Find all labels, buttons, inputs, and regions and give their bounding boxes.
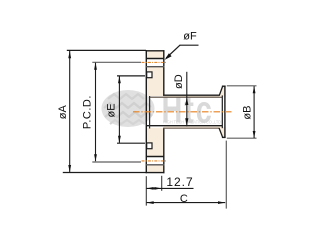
KF inner joint line <box>221 95 223 128</box>
svg-text:øD: øD <box>173 74 185 89</box>
svg-text:HIGH TECH CREATION CO.,LTD: HIGH TECH CREATION CO.,LTD <box>163 120 222 125</box>
watermark globe logo <box>102 90 155 127</box>
svg-text:C: C <box>180 193 188 205</box>
dimension D line <box>185 72 188 127</box>
bolt hole top (section) <box>146 59 164 67</box>
KF flange upper half <box>219 86 226 97</box>
dimension PCD line <box>94 63 97 162</box>
groove square bottom <box>147 143 152 149</box>
dimension C extension right <box>225 141 227 209</box>
dimension 12.7 extension right <box>161 176 163 191</box>
svg-text:øA: øA <box>57 105 69 120</box>
svg-text:P.C.D.: P.C.D. <box>82 95 94 129</box>
dimension B extension top <box>227 85 257 87</box>
dimension 12.7 extension left <box>145 176 147 205</box>
dimension A line <box>68 51 71 172</box>
KF flange lower half <box>219 127 226 137</box>
dimension E line <box>118 76 121 143</box>
groove square top <box>147 72 152 78</box>
dimension B line <box>253 86 256 138</box>
main centerline <box>133 111 232 113</box>
tube bottom wall <box>147 126 223 129</box>
svg-text:øB: øB <box>242 106 254 120</box>
bolt hole bottom centerline <box>142 160 167 162</box>
bolt hole bottom (section) <box>146 157 164 165</box>
dimension PCD extension bottom <box>92 161 141 163</box>
tube end step in plate <box>149 96 151 129</box>
dimension C line <box>147 201 226 204</box>
dimension E extension bottom <box>117 142 145 144</box>
svg-text:øF: øF <box>183 31 197 43</box>
svg-text:12.7: 12.7 <box>166 175 193 189</box>
flange plate body <box>146 50 165 173</box>
svg-text:øE: øE <box>106 103 118 117</box>
dimension PCD extension top <box>92 61 141 63</box>
dimension B extension bottom <box>227 137 257 139</box>
bolt hole top centerline <box>142 61 167 63</box>
dimension E extension top <box>117 75 145 77</box>
dimension A extension bottom <box>63 172 146 174</box>
plate outline <box>146 50 165 173</box>
tube top wall <box>149 95 223 97</box>
leader F <box>165 45 199 60</box>
dimension A extension top <box>67 49 146 51</box>
dimension 12.7 line <box>146 187 193 190</box>
watermark Htc text <box>162 89 214 132</box>
KF face line <box>224 86 226 138</box>
